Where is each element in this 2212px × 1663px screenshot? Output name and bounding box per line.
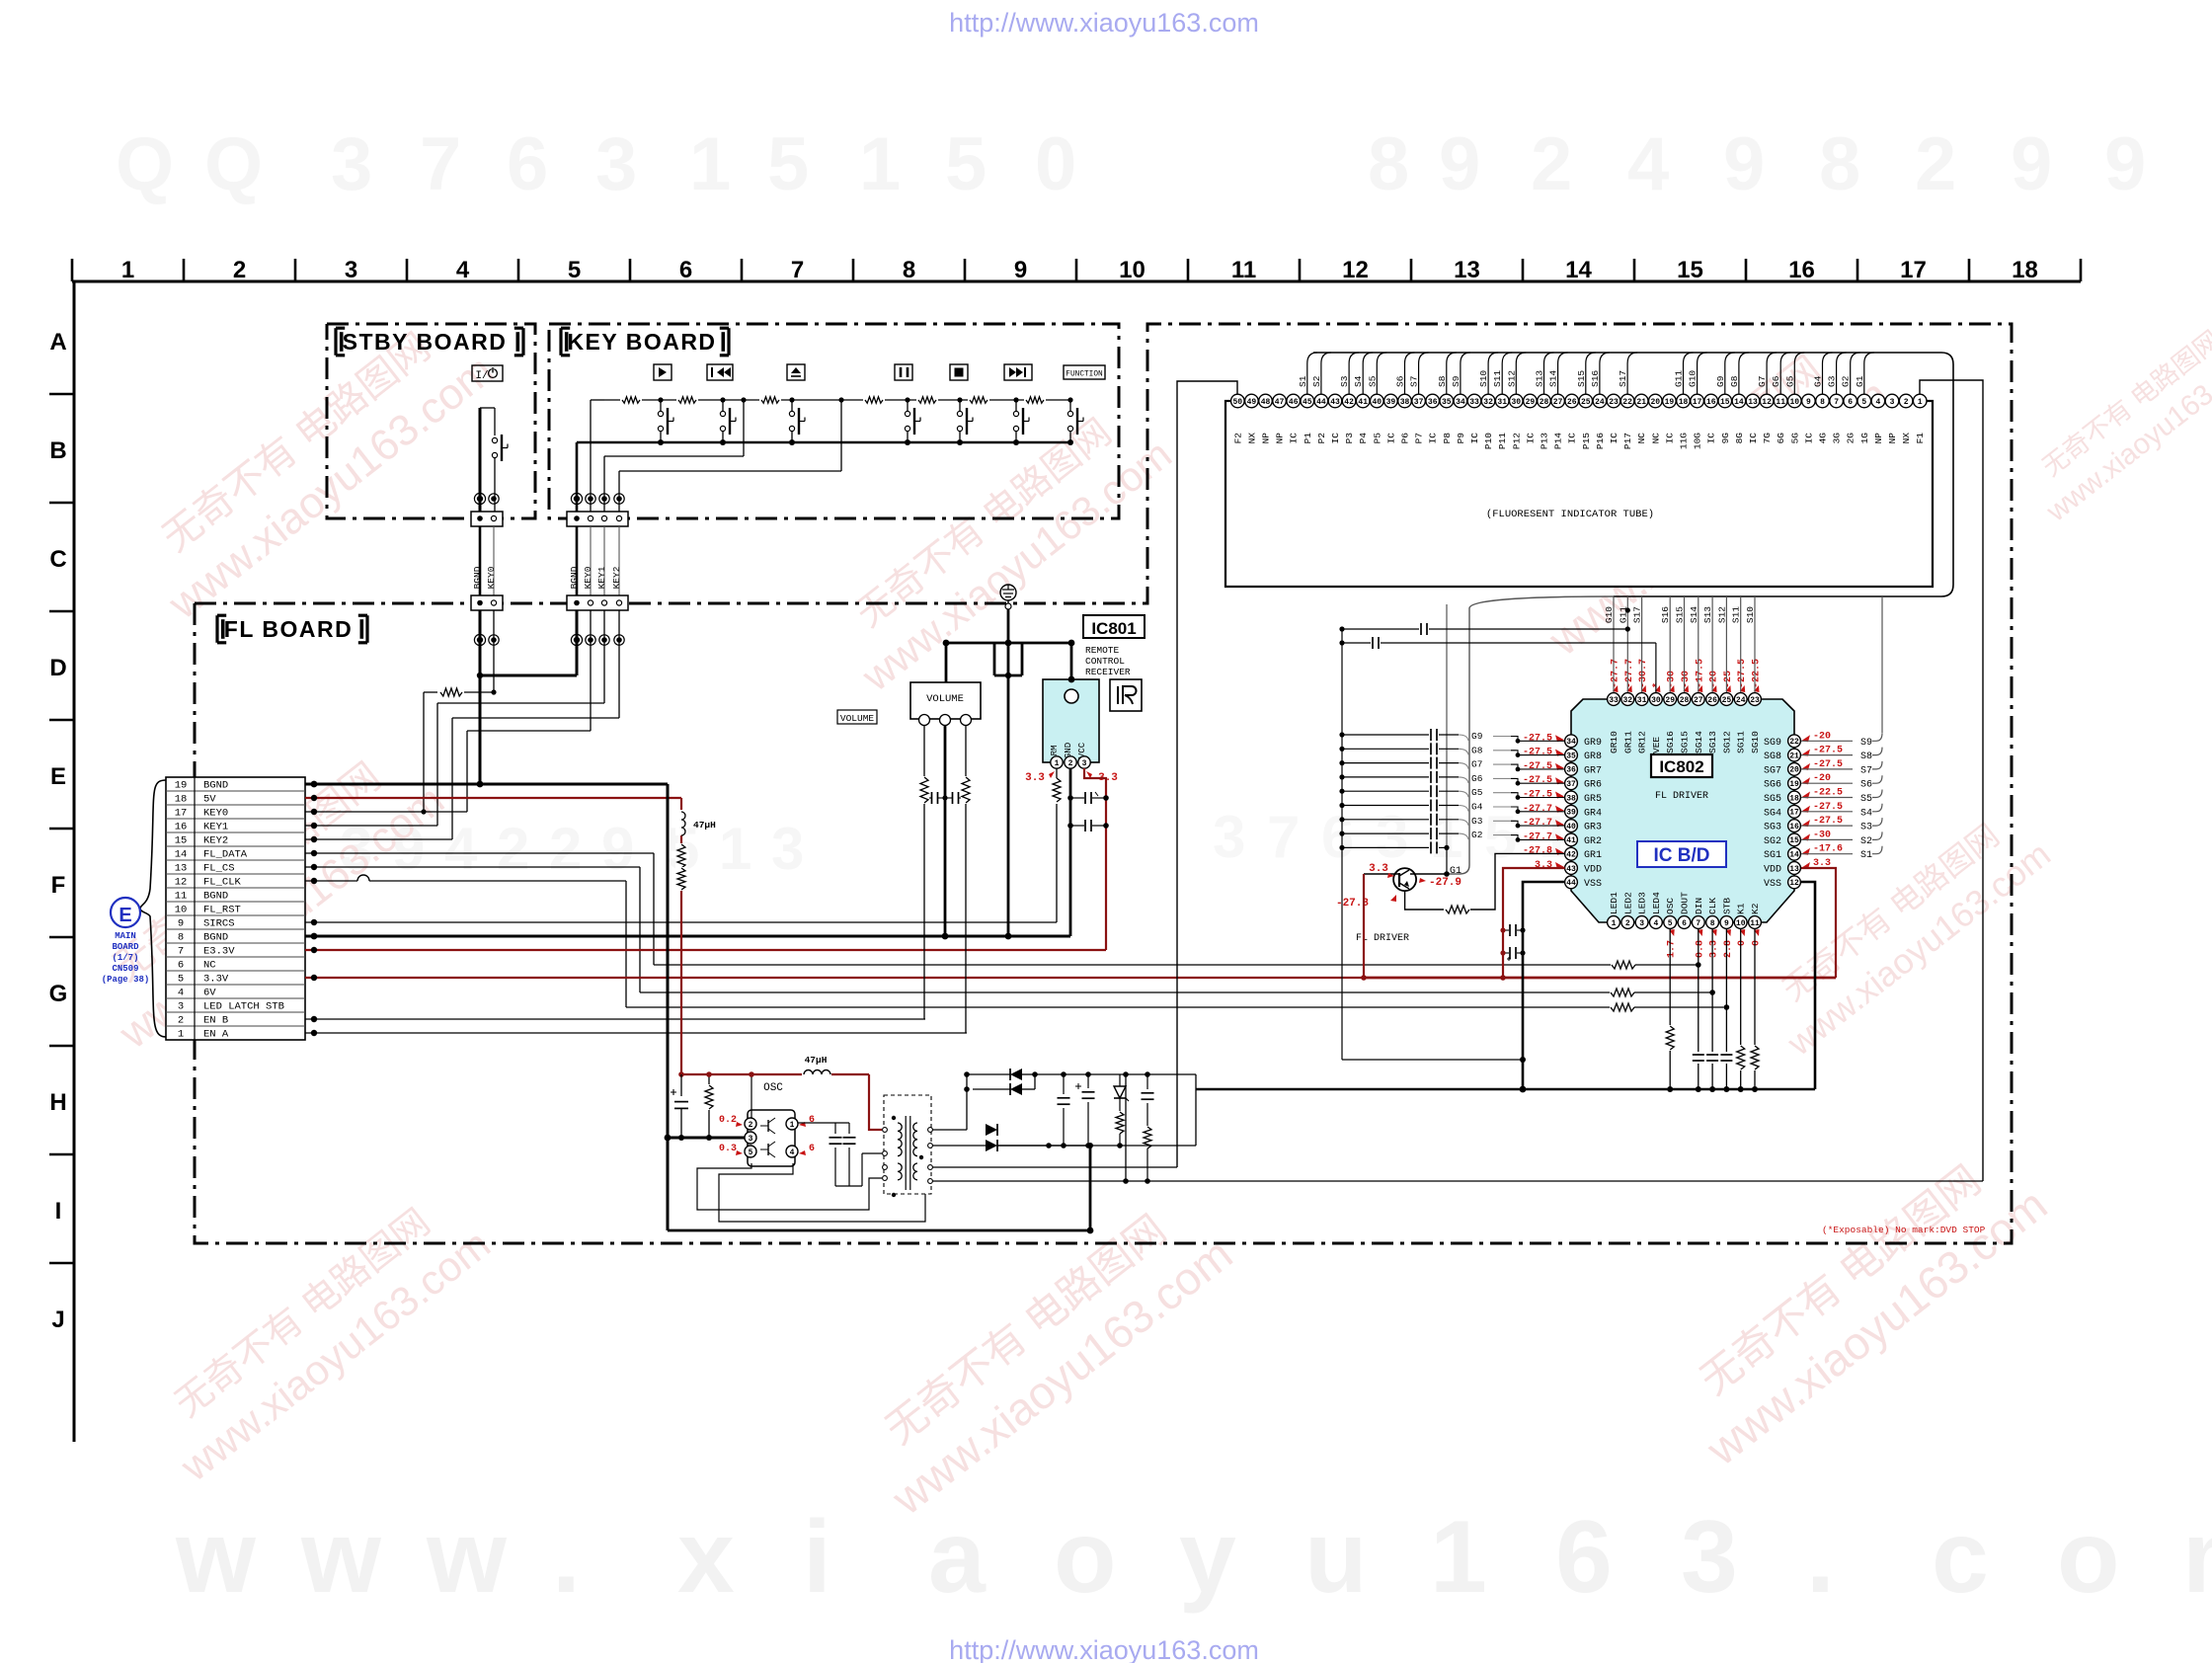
svg-text:35: 35	[1442, 398, 1452, 407]
svg-text:G1: G1	[1855, 375, 1865, 387]
svg-text:G11: G11	[1674, 370, 1685, 387]
svg-text:8: 8	[1820, 398, 1825, 407]
svg-text:41: 41	[1358, 398, 1368, 407]
svg-text:H: H	[49, 1089, 66, 1116]
wire 1211 riser	[1090, 1074, 1196, 1146]
ic801 pin wires	[1057, 768, 1109, 950]
svg-text:12: 12	[1762, 398, 1772, 407]
svg-text:G5: G5	[1471, 787, 1483, 798]
svg-text:-27.5: -27.5	[1523, 748, 1552, 758]
svg-text:G8: G8	[1471, 745, 1483, 755]
svg-text:(1/7): (1/7)	[112, 953, 138, 963]
svg-text:OSC: OSC	[763, 1082, 783, 1094]
svg-text:S8: S8	[1437, 375, 1448, 387]
via dots above stby connector	[474, 493, 499, 504]
svg-text:FL BOARD: FL BOARD	[224, 616, 353, 642]
svg-text:23: 23	[1750, 696, 1760, 705]
svg-text:2: 2	[1915, 122, 1956, 206]
red 3.3 labels ic801	[1025, 771, 1118, 784]
svg-text:GR12: GR12	[1637, 731, 1648, 753]
svg-text:12: 12	[175, 877, 188, 889]
svg-text:1: 1	[1612, 919, 1617, 928]
svg-text:26: 26	[1567, 398, 1577, 407]
svg-text:E: E	[118, 905, 131, 926]
svg-text:8: 8	[178, 932, 184, 944]
OSC hybrid IC	[745, 1110, 798, 1166]
svg-text:G8: G8	[1729, 375, 1740, 387]
svg-text:3: 3	[1213, 804, 1245, 870]
STBY BOARD outline	[327, 324, 535, 518]
VOLUME block	[910, 682, 981, 726]
svg-text:4G: 4G	[1818, 433, 1829, 444]
svg-text:y: y	[1179, 1500, 1236, 1615]
svg-text:SG8: SG8	[1764, 752, 1781, 762]
wire G1 riser	[1447, 596, 1614, 874]
IC802 bottom pins	[1608, 892, 1762, 929]
watermark faint middle digits	[340, 804, 1680, 882]
svg-text:1: 1	[1055, 759, 1060, 768]
svg-text:9: 9	[1723, 122, 1765, 206]
watermark pink stamps	[76, 303, 2212, 1525]
svg-text:SG7: SG7	[1764, 765, 1781, 776]
wires key below	[480, 610, 624, 731]
connector CN509	[166, 777, 305, 1041]
svg-text:P14: P14	[1553, 433, 1564, 449]
svg-text:J: J	[51, 1307, 64, 1333]
svg-text:-27.5: -27.5	[1813, 816, 1843, 827]
resistor ic801 rm	[1052, 778, 1062, 804]
svg-text:.: .	[552, 1500, 581, 1615]
wire ground to bus	[942, 609, 1075, 939]
svg-text:4: 4	[444, 816, 478, 882]
svg-text:P15: P15	[1581, 433, 1592, 449]
svg-text:NC: NC	[203, 960, 216, 972]
svg-text:SG1: SG1	[1764, 850, 1781, 861]
svg-text:S5: S5	[1367, 375, 1378, 387]
svg-text:3: 3	[749, 1135, 753, 1144]
svg-text:3: 3	[1082, 759, 1087, 768]
svg-text:0: 0	[1035, 122, 1076, 206]
svg-text:12: 12	[1789, 879, 1799, 888]
key scan wires	[591, 397, 844, 513]
svg-text:K1: K1	[1736, 903, 1747, 914]
svg-text:43: 43	[1566, 865, 1576, 874]
svg-text:6: 6	[178, 960, 184, 972]
svg-text:F1: F1	[1915, 433, 1926, 444]
svg-text:G4: G4	[1813, 375, 1824, 387]
svg-text:2: 2	[178, 1015, 184, 1027]
svg-text:33: 33	[1469, 398, 1479, 407]
svg-text:EN B: EN B	[203, 1015, 228, 1027]
svg-text:9: 9	[1806, 398, 1811, 407]
svg-text:38: 38	[1400, 398, 1410, 407]
svg-text:IC: IC	[1803, 433, 1814, 444]
svg-text:10: 10	[1736, 919, 1746, 928]
svg-text:S17: S17	[1618, 370, 1628, 387]
key icons row	[654, 364, 1105, 380]
svg-text:KEY2: KEY2	[611, 566, 622, 589]
rectifier top bus	[1035, 1071, 1196, 1077]
svg-text:47µH: 47µH	[693, 820, 716, 831]
svg-text:0.2: 0.2	[719, 1115, 737, 1126]
bottom wires ic802	[1614, 928, 1759, 1092]
svg-text:0: 0	[1752, 940, 1763, 946]
svg-text:K2: K2	[1750, 903, 1761, 914]
svg-text:STBY BOARD: STBY BOARD	[343, 329, 508, 355]
svg-text:18: 18	[1789, 794, 1799, 803]
svg-text:8: 8	[1710, 919, 1715, 928]
svg-text:5V: 5V	[203, 794, 216, 806]
svg-text:IC: IC	[1664, 433, 1675, 444]
svg-text:9: 9	[2011, 122, 2052, 206]
svg-text:S9: S9	[1860, 738, 1872, 749]
key0 key1 key2 routing to CN	[437, 703, 619, 839]
vss12 wire right	[1801, 882, 1815, 1089]
svg-text:1: 1	[790, 1121, 795, 1130]
wire bundle G10 G11 S17 S16..S10	[1604, 596, 1756, 692]
svg-text:P16: P16	[1595, 433, 1606, 449]
svg-text:5: 5	[1668, 919, 1673, 928]
svg-text:S15: S15	[1675, 606, 1686, 623]
inductor 47uH vertical	[675, 810, 716, 835]
svg-text:17: 17	[1693, 398, 1702, 407]
red vdd wiring left	[1361, 868, 1836, 981]
svg-text:BGND: BGND	[203, 891, 228, 903]
IC802 left pins	[1523, 733, 1602, 890]
svg-text:P10: P10	[1483, 433, 1494, 449]
svg-text:w: w	[300, 1500, 382, 1615]
KEY BOARD outline	[549, 324, 1119, 518]
svg-text:S10: S10	[1478, 370, 1489, 387]
svg-text:2: 2	[1531, 122, 1572, 206]
svg-text:P6: P6	[1400, 433, 1411, 444]
svg-text:7: 7	[178, 946, 184, 958]
svg-text:S11: S11	[1731, 606, 1742, 623]
svg-text:46: 46	[1289, 398, 1299, 407]
svg-text:SG3: SG3	[1764, 823, 1781, 833]
svg-text:GR6: GR6	[1584, 780, 1602, 791]
wire stby to fl	[480, 526, 494, 596]
svg-text:D: D	[49, 655, 66, 681]
svg-text:-27.7: -27.7	[1624, 659, 1635, 688]
diodes top pair	[964, 1069, 1038, 1095]
svg-text:10G: 10G	[1693, 433, 1703, 449]
svg-text:16: 16	[1706, 398, 1716, 407]
secondary wire upper	[932, 1074, 1049, 1136]
svg-text:G2: G2	[1841, 375, 1852, 387]
wire osc pin4 nest	[719, 1163, 925, 1222]
svg-text:CONTROL: CONTROL	[1085, 656, 1125, 667]
svg-text:SG9: SG9	[1764, 738, 1781, 749]
svg-text:GR9: GR9	[1584, 738, 1602, 749]
svg-text:10: 10	[1789, 398, 1799, 407]
wire F1	[1920, 380, 1983, 1181]
IC802 body	[1571, 699, 1794, 922]
svg-text:3.3: 3.3	[1369, 863, 1388, 875]
svg-text:S2: S2	[1860, 836, 1872, 847]
svg-text:BOARD: BOARD	[112, 942, 139, 952]
svg-text:19: 19	[1665, 398, 1675, 407]
svg-text:7G: 7G	[1762, 433, 1773, 444]
svg-text:2: 2	[749, 1121, 753, 1130]
svg-text:16: 16	[1788, 257, 1815, 283]
svg-text:P11: P11	[1497, 433, 1508, 449]
svg-text:SG10: SG10	[1750, 731, 1761, 753]
tube pin circles	[1231, 394, 1927, 408]
svg-text:36: 36	[1566, 766, 1576, 775]
svg-text:GR4: GR4	[1584, 808, 1602, 819]
svg-text:0.3: 0.3	[719, 1144, 737, 1154]
svg-text:G6: G6	[1771, 375, 1781, 387]
svg-text:36: 36	[1428, 398, 1438, 407]
svg-text:GR7: GR7	[1584, 765, 1602, 776]
svg-text:S7: S7	[1860, 765, 1872, 776]
svg-text:9: 9	[178, 918, 184, 930]
svg-text:-30: -30	[1681, 671, 1692, 688]
svg-text:2: 2	[497, 816, 529, 882]
svg-text:34: 34	[1456, 398, 1465, 407]
svg-text:S7: S7	[1409, 376, 1420, 387]
svg-text:19: 19	[175, 780, 188, 792]
svg-text:-27.5: -27.5	[1523, 733, 1552, 744]
svg-text:IC: IC	[1567, 433, 1578, 444]
svg-text:MAIN: MAIN	[115, 931, 136, 941]
svg-text:KEY0: KEY0	[583, 566, 593, 589]
svg-text:0.8: 0.8	[1695, 940, 1705, 958]
svg-text:SG16: SG16	[1665, 731, 1676, 753]
svg-text:VOLUME: VOLUME	[840, 713, 875, 724]
svg-text:u: u	[1304, 1500, 1368, 1615]
svg-text:21: 21	[1789, 752, 1799, 760]
svg-text:G7: G7	[1471, 759, 1482, 770]
svg-text:26: 26	[1707, 696, 1717, 705]
svg-text:KEY BOARD: KEY BOARD	[567, 329, 716, 355]
wire loop below bus	[994, 643, 1022, 678]
svg-text:S11: S11	[1492, 370, 1503, 387]
svg-text:9: 9	[601, 816, 634, 882]
svg-text:P2: P2	[1316, 433, 1327, 444]
svg-text:IC B/D: IC B/D	[1654, 845, 1710, 866]
svg-text:*: *	[1651, 682, 1663, 688]
svg-text:29: 29	[1526, 398, 1536, 407]
CN row wires	[305, 781, 1836, 1037]
svg-text:VDD: VDD	[1584, 865, 1602, 876]
svg-text:-27.5: -27.5	[1737, 659, 1748, 688]
svg-text:10: 10	[1119, 257, 1145, 283]
svg-text:DOUT: DOUT	[1680, 892, 1691, 914]
svg-text:3.3V: 3.3V	[203, 974, 229, 986]
svg-text:39: 39	[1566, 809, 1576, 818]
left cap bus vertical	[1342, 735, 1523, 1060]
svg-text:(*Exposable) No mark:DVD STOP: (*Exposable) No mark:DVD STOP	[1822, 1225, 1986, 1235]
svg-text:http://www.xiaoyu163.com: http://www.xiaoyu163.com	[949, 1635, 1259, 1663]
resistor chain key matrix	[591, 396, 1069, 404]
svg-text:8: 8	[1368, 122, 1409, 206]
red 5V rail vertical	[678, 798, 684, 1077]
svg-text:37: 37	[1566, 780, 1576, 789]
svg-text:G: G	[49, 981, 68, 1007]
svg-text:VSS: VSS	[1764, 879, 1781, 890]
wire pin1 to caps	[799, 1123, 835, 1125]
red label -27.8	[1336, 895, 1396, 910]
svg-text:10: 10	[175, 905, 188, 916]
svg-text:4: 4	[790, 1148, 795, 1157]
svg-text:IC802: IC802	[1659, 757, 1703, 776]
svg-text:BGND: BGND	[569, 566, 580, 589]
svg-text:35: 35	[1566, 752, 1576, 760]
svg-text:31: 31	[1637, 696, 1647, 705]
IC801 remote control receiver text	[1085, 645, 1131, 677]
svg-text:-27.5: -27.5	[1813, 759, 1843, 770]
svg-text:14: 14	[1565, 257, 1592, 283]
svg-text:G10: G10	[1688, 370, 1698, 387]
svg-text:1: 1	[1430, 1500, 1487, 1615]
svg-text:GR11: GR11	[1622, 731, 1633, 753]
svg-text:5: 5	[178, 974, 184, 986]
svg-text:o: o	[2057, 1500, 2120, 1615]
svg-text:P13: P13	[1540, 433, 1550, 449]
svg-text:9: 9	[1439, 122, 1480, 206]
svg-text:G2: G2	[1471, 830, 1483, 840]
svg-text:SG15: SG15	[1680, 731, 1691, 753]
svg-text:7: 7	[1834, 398, 1839, 407]
svg-text:17: 17	[175, 808, 188, 820]
svg-text:3: 3	[1890, 398, 1895, 407]
svg-text:-27.7: -27.7	[1611, 659, 1621, 688]
svg-text:OSC: OSC	[1665, 898, 1676, 914]
svg-text:IC: IC	[1330, 433, 1341, 444]
svg-text:o: o	[1054, 1500, 1117, 1615]
svg-text:9: 9	[1724, 919, 1729, 928]
svg-text:SIRCS: SIRCS	[203, 918, 235, 930]
resistor volume A	[919, 776, 929, 804]
svg-text:25: 25	[1722, 696, 1732, 705]
svg-text:-27.8: -27.8	[1523, 846, 1552, 857]
resistor rail 2	[675, 867, 687, 891]
tube S/G stub wires	[1298, 353, 1874, 394]
svg-text:G10: G10	[1604, 606, 1615, 623]
heater wire F2 lower	[932, 1166, 1177, 1168]
svg-text:E: E	[50, 763, 66, 790]
svg-text:2: 2	[233, 257, 246, 283]
svg-text:G1: G1	[1450, 866, 1461, 877]
svg-text:3: 3	[1639, 919, 1644, 928]
svg-text:GR3: GR3	[1584, 823, 1602, 833]
svg-text:S12: S12	[1506, 370, 1517, 387]
svg-text:STB: STB	[1721, 898, 1732, 914]
svg-text:P12: P12	[1511, 433, 1522, 449]
svg-text:5: 5	[568, 257, 581, 283]
svg-text:S12: S12	[1716, 606, 1727, 623]
svg-text:c: c	[1932, 1500, 1989, 1615]
cap electrolytic left	[671, 1074, 688, 1141]
svg-text:27: 27	[1694, 696, 1703, 705]
svg-text:18: 18	[2012, 257, 2038, 283]
svg-text:GR5: GR5	[1584, 794, 1602, 805]
caps near vdd/vss	[1500, 924, 1525, 961]
svg-text:1: 1	[719, 816, 751, 882]
cap electrolytic 2	[1075, 1074, 1095, 1148]
heater wire F1 lower	[932, 1074, 1983, 1184]
vss wire left	[1520, 882, 1565, 1092]
svg-text:13: 13	[1748, 398, 1758, 407]
svg-text:SG5: SG5	[1764, 794, 1781, 805]
svg-text:-27.7: -27.7	[1523, 804, 1552, 815]
wire grid riser 2	[1446, 604, 1448, 845]
IC801 label	[1083, 615, 1145, 638]
switch S-power	[492, 435, 508, 513]
svg-text:BGND: BGND	[203, 932, 228, 944]
svg-text:2: 2	[1625, 919, 1630, 928]
svg-text:4: 4	[1875, 398, 1880, 407]
volume pin wires	[921, 725, 968, 1033]
svg-text:6: 6	[507, 122, 548, 206]
svg-text:14: 14	[1789, 851, 1799, 860]
svg-text:S3: S3	[1860, 823, 1872, 833]
svg-text:KEY2: KEY2	[203, 835, 228, 847]
svg-text:-30: -30	[1667, 671, 1678, 688]
svg-text:BGND: BGND	[472, 566, 483, 589]
svg-text:-25: -25	[1723, 671, 1734, 688]
svg-text:P1: P1	[1303, 433, 1313, 444]
svg-text:20: 20	[1650, 398, 1660, 407]
svg-text:17: 17	[1789, 809, 1799, 818]
svg-text:NX: NX	[1246, 433, 1257, 444]
svg-text:S15: S15	[1576, 370, 1587, 387]
IC802 label	[1651, 754, 1712, 777]
svg-text:18: 18	[175, 794, 188, 806]
cap + resistor branch right	[1142, 1074, 1154, 1184]
svg-text:4: 4	[1627, 122, 1669, 206]
svg-text:3.3: 3.3	[1709, 940, 1720, 958]
svg-text:8G: 8G	[1734, 433, 1745, 444]
svg-text:G4: G4	[1471, 802, 1483, 813]
red osc feed	[681, 1074, 882, 1130]
svg-text:G7: G7	[1757, 376, 1768, 387]
svg-text:2: 2	[1904, 398, 1909, 407]
svg-text:S1: S1	[1298, 375, 1308, 387]
svg-text:29: 29	[1665, 696, 1675, 705]
svg-text:44: 44	[1316, 398, 1326, 407]
svg-text:P4: P4	[1358, 433, 1369, 444]
svg-text:3G: 3G	[1832, 433, 1843, 444]
FL BOARD outline	[195, 324, 2012, 1243]
svg-text:NP: NP	[1275, 433, 1286, 444]
svg-text:3: 3	[1376, 804, 1408, 870]
svg-text:-20: -20	[1709, 671, 1720, 688]
svg-text:4: 4	[178, 988, 184, 999]
svg-text:LED2: LED2	[1622, 892, 1633, 914]
svg-text:VEE: VEE	[1651, 737, 1662, 753]
FL BOARD title	[217, 615, 367, 643]
wire collector to G1	[1410, 866, 1461, 877]
svg-text:S6: S6	[1395, 375, 1406, 387]
secondary wire lower	[932, 1140, 1093, 1230]
transformer T801	[883, 1095, 933, 1197]
svg-text:2.8: 2.8	[1723, 940, 1734, 958]
resistor volume B	[961, 776, 971, 804]
svg-text:17: 17	[1900, 257, 1927, 283]
svg-text:43: 43	[1330, 398, 1340, 407]
svg-text:6: 6	[1555, 1500, 1613, 1615]
svg-text:RM: RM	[1050, 746, 1060, 756]
svg-text:http://www.xiaoyu163.com: http://www.xiaoyu163.com	[949, 8, 1259, 38]
svg-text:16: 16	[175, 822, 188, 833]
svg-text:7: 7	[420, 122, 461, 206]
svg-text:P17: P17	[1622, 433, 1633, 449]
svg-text:S4: S4	[1860, 808, 1872, 819]
watermark qq numbers	[116, 122, 2146, 206]
